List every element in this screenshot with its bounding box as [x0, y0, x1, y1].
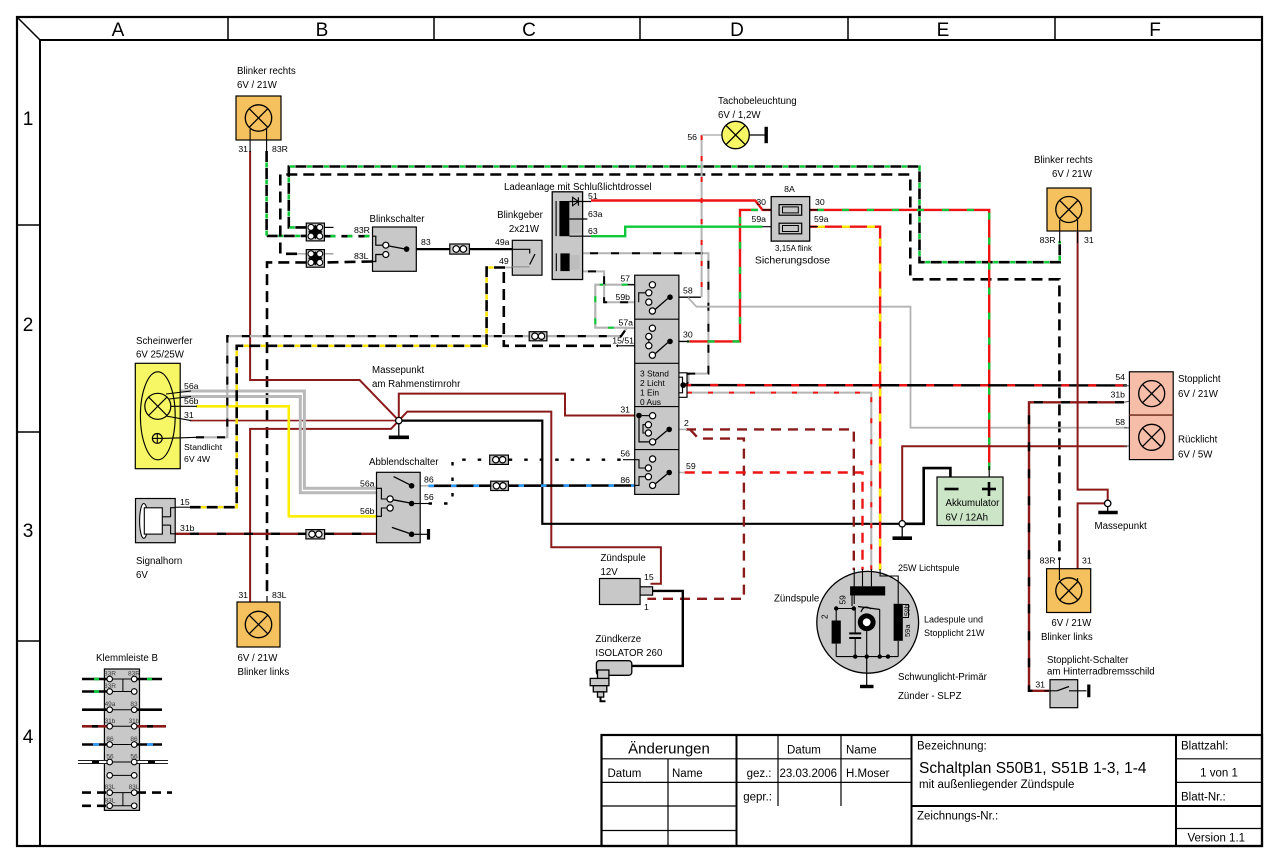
svg-text:Blinker rechts: Blinker rechts	[1034, 155, 1093, 166]
wire 86: black/blue from Abblendschalter 86 to switch 86	[414, 485, 641, 487]
svg-text:Blinker links: Blinker links	[1041, 632, 1093, 643]
svg-text:Name: Name	[846, 745, 877, 757]
wire 31: Massepunkt to Zündspule 15	[399, 412, 661, 584]
svg-text:83R: 83R	[104, 671, 116, 678]
svg-text:Blinker rechts: Blinker rechts	[237, 66, 296, 77]
svg-text:6V / 21W: 6V / 21W	[1178, 389, 1219, 400]
wire 59b magneto: gray/red from key bracket down to magneto	[687, 393, 871, 570]
svg-text:49: 49	[499, 256, 509, 266]
horn Signalhorn	[136, 497, 195, 581]
lamp Blinker rechts rear (top right)	[1034, 155, 1094, 245]
connector X3 on wire 83 (2-pin)	[450, 244, 470, 254]
svg-text:8A: 8A	[784, 184, 795, 194]
lamps Stopplicht / Rücklicht	[1111, 372, 1221, 461]
svg-text:59a: 59a	[752, 214, 767, 224]
wire 31b horn: maroon/black from Signalhorn to Abblendschalter	[175, 533, 377, 535]
svg-text:C: C	[522, 20, 536, 41]
svg-text:6V / 21W: 6V / 21W	[238, 653, 279, 664]
connector X6 on wire 31b (2-pin)	[306, 530, 325, 539]
svg-text:Standlicht: Standlicht	[184, 442, 223, 452]
svg-text:3: 3	[23, 521, 34, 542]
svg-text:83L: 83L	[354, 251, 369, 261]
svg-text:Zünder - SLPZ: Zünder - SLPZ	[898, 691, 962, 702]
svg-text:15/51: 15/51	[612, 336, 634, 346]
svg-text:12V: 12V	[601, 567, 619, 578]
ignition coil Zündspule 12V	[600, 553, 683, 666]
Klemmleiste row 7 (unused)	[107, 773, 137, 779]
svg-text:1 von 1: 1 von 1	[1200, 768, 1238, 780]
ground Massepunkt am Rahmenstirnrohr	[372, 365, 461, 437]
Klemmleiste row 5 (86/86)	[82, 736, 162, 747]
headlamp Scheinwerfer	[135, 336, 222, 469]
svg-text:gez.:: gez.:	[747, 768, 772, 780]
svg-text:2: 2	[23, 315, 34, 336]
wire 59b: gray/black from Ladeanlage lower tap to switch 59b	[583, 271, 646, 302]
svg-text:30: 30	[756, 197, 766, 207]
connector X2 lower (4-pin plug)	[306, 250, 333, 268]
wire 57: gray-green jumper switch 57 to 57a	[595, 285, 649, 328]
svg-text:am Hinterradbremsschild: am Hinterradbremsschild	[1047, 667, 1155, 678]
svg-text:Massepunkt: Massepunkt	[1095, 521, 1148, 532]
svg-text:31: 31	[184, 410, 194, 420]
svg-text:Name: Name	[672, 768, 703, 780]
wire 56a: gray from Scheinwerfer to Abblendschalter	[181, 391, 377, 488]
charging unit Ladeanlage mit Schlußlichtdrossel	[504, 182, 652, 280]
wire 31 front lower: maroon from Massepunkt down to Blinker links front	[250, 421, 399, 602]
svg-text:31: 31	[1082, 556, 1092, 566]
svg-text:Zündkerze: Zündkerze	[595, 634, 641, 645]
svg-text:A: A	[112, 20, 125, 41]
relay Blinkgeber	[495, 210, 544, 275]
svg-text:Ladespule und: Ladespule und	[924, 615, 983, 625]
wire 57 pin stub at switch	[628, 284, 650, 286]
wire 49a/83: Blinkschalter 83 to Blinkgeber 49a	[408, 248, 451, 250]
svg-text:6V 4W: 6V 4W	[184, 454, 211, 464]
svg-text:86: 86	[424, 475, 434, 485]
svg-text:83R: 83R	[272, 144, 288, 154]
wire bus 83R rear: black/green from connector pin up over to Blinker rechts rear	[289, 167, 1060, 263]
svg-text:86: 86	[130, 736, 138, 743]
svg-text:30: 30	[683, 330, 693, 340]
svg-text:Datum: Datum	[608, 768, 642, 780]
svg-text:Bezeichnung:: Bezeichnung:	[917, 741, 987, 753]
svg-text:Abblendschalter: Abblendschalter	[369, 457, 439, 468]
svg-text:49a: 49a	[105, 701, 116, 708]
wire bus 83L rear: black dashed from lower connector pin up over to Blinker links rear	[280, 175, 1059, 561]
switch section 5: 56/86/59	[620, 449, 696, 489]
wire 15: black/yellow from Blinkgeber 49 down, west, down to Signalhorn 15	[190, 268, 512, 508]
lamp Blinker links rear (bottom right)	[1040, 556, 1093, 644]
ground node at battery	[893, 521, 913, 539]
svg-text:F: F	[1149, 20, 1161, 41]
Klemmleiste row 9 (83L)	[82, 797, 137, 808]
row numbers	[23, 109, 34, 748]
svg-text:2 Licht: 2 Licht	[640, 378, 665, 388]
svg-text:1: 1	[23, 109, 34, 130]
wire 31: Massepunkt to ignition switch 31	[399, 394, 637, 421]
svg-text:51: 51	[588, 191, 598, 201]
wire 31: Scheinwerfer 31 to Massepunkt	[190, 420, 399, 422]
svg-text:15: 15	[644, 572, 654, 582]
svg-text:6V / 5W: 6V / 5W	[1178, 450, 1213, 461]
svg-text:59a: 59a	[814, 214, 829, 224]
Klemmleiste row 4 (31b/31b)	[82, 718, 166, 729]
svg-text:6V / 21W: 6V / 21W	[237, 80, 278, 91]
svg-text:83R: 83R	[1040, 235, 1056, 245]
svg-text:Blinkgeber: Blinkgeber	[497, 210, 544, 221]
switch S3 Blinkschalter	[354, 214, 431, 271]
svg-text:63a: 63a	[588, 209, 603, 219]
svg-text:31: 31	[620, 405, 630, 415]
svg-text:3,15A flink: 3,15A flink	[775, 244, 813, 253]
wire 30/51: red/green from fuse right to battery plus	[802, 210, 990, 477]
wire 15/51: black dashed from 49 junction to ignition switch 15/51	[504, 272, 618, 346]
svg-text:Blinkschalter: Blinkschalter	[370, 214, 426, 225]
title block	[602, 735, 1263, 846]
wire 59a: green from Ladeanlage 63 to fuse 59a	[591, 227, 763, 237]
svg-text:49a: 49a	[495, 237, 510, 247]
wire 56: black dotted from Abblendschalter 56 to switch 56	[429, 460, 625, 504]
svg-text:Zeichnungs-Nr.:: Zeichnungs-Nr.:	[917, 811, 998, 823]
svg-text:Datum: Datum	[787, 745, 821, 757]
wire 56 tacho: gray/red from Tachobeleuchtung down to 58	[701, 135, 703, 297]
svg-text:56: 56	[130, 754, 138, 761]
lamp Blinker links front (bottom left)	[237, 590, 289, 678]
svg-text:31: 31	[238, 144, 248, 154]
svg-text:83R: 83R	[104, 683, 116, 690]
switch section 2: 57a/15-51/30	[612, 318, 693, 359]
wire 31 front: maroon from Blinker rechts front to Massepunkt	[250, 151, 399, 421]
switch Abblendschalter	[360, 457, 439, 543]
svg-text:31: 31	[1035, 680, 1045, 690]
wire 58: black stub + gray from switch 58 over to Rücklicht 58	[673, 296, 701, 298]
svg-text:83L: 83L	[129, 784, 140, 791]
svg-text:6V / 12Ah: 6V / 12Ah	[946, 513, 989, 524]
svg-text:Klemmleiste B: Klemmleiste B	[96, 653, 158, 664]
wire 56b: yellow from Scheinwerfer to Abblendschalter 56b	[196, 406, 377, 516]
wire 31: maroon from ground node up and over to Rücklicht 31	[902, 446, 1127, 521]
svg-text:Stopplicht 21W: Stopplicht 21W	[924, 628, 985, 638]
svg-text:4: 4	[23, 727, 34, 748]
svg-text:Tachobeleuchtung: Tachobeleuchtung	[718, 96, 797, 107]
svg-text:83R: 83R	[128, 671, 140, 678]
svg-text:31: 31	[238, 590, 248, 600]
svg-text:59b: 59b	[616, 292, 631, 302]
battery Akkumulator	[937, 477, 1003, 526]
svg-text:0 Aus: 0 Aus	[640, 397, 661, 407]
svg-text:83R: 83R	[1040, 556, 1056, 566]
svg-text:Schaltplan S50B1, S51B 1-3, 1-: Schaltplan S50B1, S51B 1-3, 1-4	[919, 760, 1147, 777]
svg-text:Sicherungsdose: Sicherungsdose	[755, 255, 830, 267]
svg-text:1 Ein: 1 Ein	[640, 388, 659, 398]
wire 83L: Blinkschalter to Blinker links front	[324, 262, 372, 263]
svg-text:gepr.:: gepr.:	[743, 792, 772, 804]
Klemmleiste row 2 (83R)	[82, 683, 137, 694]
wire 2: maroon dashed from switch 2 to magneto primary	[686, 429, 854, 570]
svg-text:63: 63	[588, 226, 598, 236]
svg-text:Schwunglicht-Primär: Schwunglicht-Primär	[898, 672, 988, 683]
connector X1 upper (4-pin plug)	[306, 223, 333, 241]
svg-text:6V / 21W: 6V / 21W	[1051, 618, 1092, 629]
Klemmleiste row 3 (49a/83)	[82, 701, 162, 712]
wire 31b rear: maroon/black from Stopplicht 31b down to Stopplicht-Schalter	[1029, 399, 1141, 691]
svg-text:Version 1.1: Version 1.1	[1188, 833, 1246, 845]
svg-text:83L: 83L	[105, 784, 116, 791]
svg-text:6V / 21W: 6V / 21W	[1052, 169, 1093, 180]
wire 1: maroon dashed branch to Zündspule terminal 1	[647, 429, 744, 598]
svg-text:57: 57	[620, 274, 630, 284]
svg-text:56a: 56a	[184, 381, 199, 391]
svg-text:31b: 31b	[105, 718, 116, 725]
svg-text:Scheinwerfer: Scheinwerfer	[136, 336, 193, 347]
svg-text:31b: 31b	[180, 523, 195, 533]
wire 83R front: black/green from Blinker rechts front down to connector	[267, 151, 307, 236]
ground Massepunkt rear	[1095, 500, 1148, 532]
fuse box Sicherungsdose	[752, 184, 831, 267]
svg-text:B: B	[316, 20, 329, 41]
wire 2 stub at switch	[672, 428, 687, 430]
wire battery minus to ground node	[902, 468, 950, 524]
svg-text:1: 1	[644, 602, 649, 612]
svg-text:15: 15	[180, 497, 190, 507]
svg-text:83: 83	[421, 237, 431, 247]
svg-text:6V: 6V	[136, 570, 148, 581]
svg-text:2: 2	[684, 418, 689, 428]
svg-text:31b: 31b	[129, 718, 140, 725]
switch section 1: 57/59b/58	[616, 274, 693, 315]
svg-text:D: D	[730, 20, 744, 41]
svg-text:Zündspule: Zündspule	[774, 594, 819, 605]
svg-text:59: 59	[838, 595, 848, 605]
svg-text:Akkumulator: Akkumulator	[946, 498, 1001, 509]
svg-text:Stopplicht-Schalter: Stopplicht-Schalter	[1047, 655, 1129, 666]
svg-text:59b: 59b	[904, 604, 911, 616]
wire standlicht/57a: gray-black from Standlicht up and over to switch 57a	[196, 328, 649, 437]
Klemmleiste row 6 (56/56 white wire)	[78, 754, 168, 765]
svg-text:54: 54	[1115, 372, 1125, 382]
svg-text:59a: 59a	[903, 624, 912, 637]
spark plug Zündkerze ISOLATOR 260	[590, 634, 663, 701]
svg-text:86: 86	[620, 475, 630, 485]
ignition switch Zündlichtschalter	[635, 275, 679, 494]
svg-text:83L: 83L	[105, 797, 116, 804]
svg-text:57a: 57a	[619, 318, 634, 328]
connector X5 on wire 86 (2-pin)	[491, 481, 509, 490]
svg-text:56: 56	[620, 449, 630, 459]
svg-text:58: 58	[1115, 417, 1125, 427]
svg-text:Blinker links: Blinker links	[238, 667, 290, 678]
wire 56b-2: gray from Scheinwerfer to Abblendschalter	[181, 397, 377, 493]
svg-text:H.Moser: H.Moser	[846, 768, 890, 780]
wire 54: black/red from switch key junction to Stopplicht 54	[683, 385, 1141, 387]
connector X7 on wire 57a (2-pin)	[529, 332, 547, 341]
svg-text:86: 86	[106, 736, 114, 743]
column letters	[112, 20, 1161, 41]
wire 30: red/green from fuse left down to switch 30	[673, 210, 758, 342]
lamp E1 Blinker rechts front	[236, 66, 296, 154]
switch section 3: key positions + 54 bracket	[640, 369, 687, 408]
wire 31 rear: maroon from Blinker rechts rear down through Massepunkt to Blinker links rear	[1078, 232, 1108, 500]
switch Stopplicht-Schalter am Hinterradbremsschild	[1035, 655, 1154, 708]
svg-text:Signalhorn: Signalhorn	[136, 556, 182, 567]
svg-text:Blatt-Nr.:: Blatt-Nr.:	[1181, 792, 1226, 804]
svg-text:83: 83	[130, 701, 138, 708]
Klemmleiste row 1 (83R/83R)	[82, 671, 162, 682]
wire 59a: red/yellow from fuse right down to magneto	[802, 227, 880, 570]
svg-text:56: 56	[687, 132, 697, 142]
svg-text:56: 56	[106, 754, 114, 761]
svg-text:Blattzahl:: Blattzahl:	[1181, 741, 1228, 753]
svg-text:6V / 1,2W: 6V / 1,2W	[718, 110, 761, 121]
svg-text:56b: 56b	[184, 396, 199, 406]
svg-text:Stopplicht: Stopplicht	[1178, 374, 1221, 385]
svg-text:mit außenliegender Zündspule: mit außenliegender Zündspule	[919, 779, 1074, 791]
svg-text:56: 56	[424, 492, 434, 502]
svg-text:3 Stand: 3 Stand	[640, 369, 669, 379]
svg-text:ISOLATOR 260: ISOLATOR 260	[595, 648, 663, 659]
svg-text:83L: 83L	[272, 590, 287, 600]
svg-text:83R: 83R	[354, 225, 370, 235]
svg-text:59: 59	[686, 461, 696, 471]
svg-text:Zündspule: Zündspule	[601, 553, 646, 564]
svg-text:25W Lichtspule: 25W Lichtspule	[898, 563, 960, 573]
wire 59b upper: gray/black from Ladeanlage upper tap to key-switch bracket	[583, 253, 709, 385]
svg-text:2: 2	[820, 614, 830, 619]
svg-text:31: 31	[1084, 235, 1094, 245]
terminal strip Klemmleiste B	[96, 653, 158, 810]
svg-text:6V 25/25W: 6V 25/25W	[136, 350, 185, 361]
lamp Tachobeleuchtung	[687, 96, 796, 149]
svg-text:Rücklicht: Rücklicht	[1178, 435, 1218, 446]
switch section 4: 31/2	[620, 405, 689, 446]
svg-text:23.03.2006: 23.03.2006	[780, 768, 838, 780]
connector X4 on wire 56 (2-pin)	[490, 455, 509, 464]
svg-text:E: E	[937, 20, 950, 41]
svg-text:am Rahmenstirnrohr: am Rahmenstirnrohr	[372, 379, 461, 390]
wire 31 ground: black from Massepunkt to battery ground node	[399, 421, 899, 524]
svg-text:56a: 56a	[360, 479, 375, 489]
svg-text:Massepunkt: Massepunkt	[372, 365, 425, 376]
wire 83R: connector to Blinkschalter 83R	[324, 235, 372, 238]
svg-text:56b: 56b	[360, 506, 375, 516]
flywheel magneto SLPZ	[774, 563, 988, 702]
svg-text:Änderungen: Änderungen	[628, 741, 710, 758]
Klemmleiste row 8 (83L/83L)	[82, 784, 172, 795]
svg-text:30: 30	[815, 197, 825, 207]
wire 51: red from Ladeanlage 51 to fuse 30	[591, 201, 779, 210]
svg-text:2x21W: 2x21W	[509, 224, 540, 235]
svg-text:58: 58	[683, 286, 693, 296]
wire 59: red dashed from switch 59 to magneto	[672, 473, 862, 571]
svg-text:31b: 31b	[1111, 390, 1126, 400]
